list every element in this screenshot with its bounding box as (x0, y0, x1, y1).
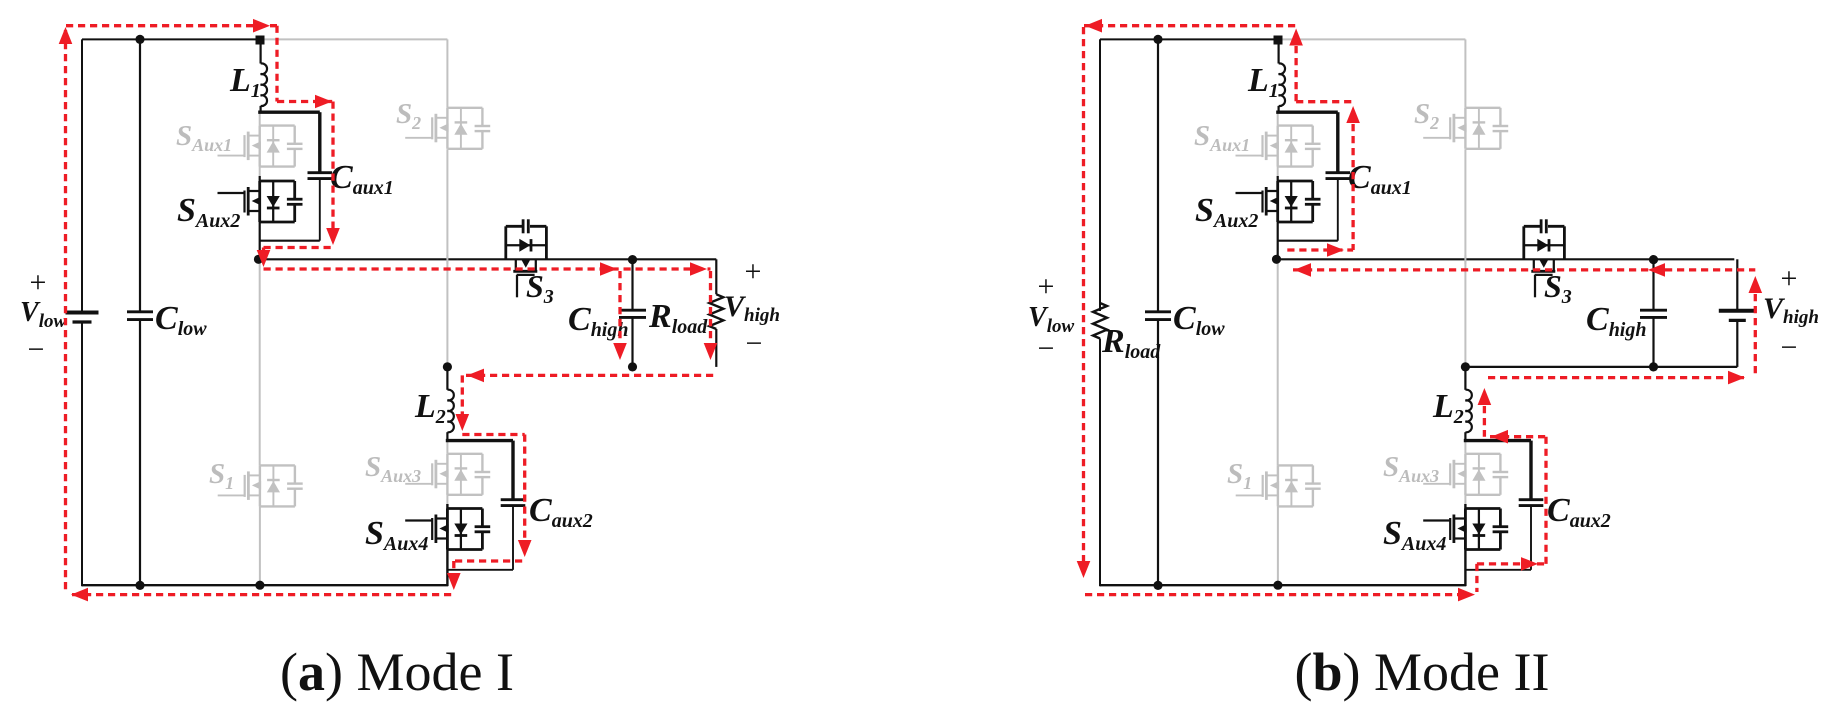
wire top rail (82, 38, 261, 40)
wire left branch lower (81, 323, 83, 586)
svg-text:+: + (30, 266, 47, 299)
transistor S_Aux1 (inactive) (218, 126, 303, 167)
wire S2 source to L2 node (446, 149, 448, 366)
svg-text:−: − (1038, 332, 1055, 365)
wire gray crossing overlay (446, 255, 448, 264)
label S3 (1544, 268, 1572, 308)
current path left rail (1082, 27, 1085, 570)
label C_high (568, 301, 629, 341)
node C_high bottom (1649, 362, 1658, 371)
wire output rail (259, 258, 717, 260)
wire S1 source to bottom rail (1277, 506, 1279, 585)
wire node to S1 drain (259, 259, 261, 465)
wire S2 source to L2 node (1464, 149, 1466, 366)
label S_Aux3 (1383, 451, 1439, 486)
label L1 (229, 62, 261, 102)
current arrow right mid (600, 262, 617, 276)
wire S_Aux4 axis (1464, 504, 1466, 586)
current arrow left top (1085, 19, 1102, 33)
current arrow left node (1294, 263, 1311, 277)
svg-text:−: − (1781, 331, 1798, 364)
transistor S2 (inactive) (405, 108, 490, 149)
capacitor C_high (619, 310, 646, 317)
label V_high (1763, 292, 1819, 328)
wire top gray (node to S2 drain) (261, 38, 447, 40)
wire L2 top lead (446, 369, 448, 390)
wire L2 top lead (1464, 369, 1466, 390)
node top C_low junction (135, 35, 144, 44)
wire S_Aux1 source lead (1277, 167, 1279, 182)
current path aux2 to bottom (452, 561, 455, 583)
inductor L1 (261, 63, 267, 106)
current path R_load down (709, 271, 712, 351)
wire C_low upper (1157, 39, 1159, 311)
transistor S3 (1524, 219, 1565, 297)
label S2 (1414, 98, 1439, 133)
wire left branch lower (1099, 339, 1101, 587)
circuit (b) Mode II (1028, 19, 1819, 602)
wire S2 drain lead (1464, 39, 1466, 107)
current arrow up left (59, 27, 73, 44)
current path down beside L1 (275, 26, 278, 102)
caption (a) Mode I (280, 642, 514, 702)
node bottom C_low junction (1153, 581, 1162, 590)
label V_low (20, 297, 66, 332)
wire S_Aux4 axis (446, 504, 448, 586)
transistor S_Aux4 (1423, 509, 1508, 550)
caption (b) Mode II (1295, 642, 1550, 702)
svg-text:+: + (1038, 270, 1055, 303)
label C_aux1 (1348, 159, 1412, 199)
current arrow down C_high (613, 343, 627, 360)
current arrow up aux1 (1346, 106, 1360, 123)
current path up beside L2 (1483, 394, 1486, 437)
wire L1 top lead (1277, 44, 1279, 64)
current arrow up L2 (1478, 388, 1492, 405)
wire aux2 bottom return (448, 569, 513, 571)
svg-text:−: − (746, 327, 763, 360)
current path output rail (1293, 268, 1755, 271)
current arrow right end (690, 262, 707, 276)
node top C_low junction (1153, 35, 1162, 44)
current path to C_aux2 top (462, 433, 524, 436)
wire top gray (node to S2 drain) (1279, 38, 1465, 40)
wire C_aux1 upper (1336, 112, 1339, 172)
inductor L2 (447, 390, 453, 433)
node C_high top (628, 255, 637, 264)
current path aux2 return (455, 559, 525, 562)
wire S_Aux3 drain lead (446, 442, 448, 454)
wire S_Aux1 source lead (259, 167, 261, 182)
current path aux1 return (264, 246, 334, 249)
node output junction (1272, 255, 1281, 264)
wire aux2 bottom return (1466, 569, 1531, 571)
svg-text:−: − (28, 333, 45, 366)
node L2 top junction (1461, 362, 1470, 371)
wire S2 drain lead (446, 39, 448, 107)
current arrow right top (253, 19, 270, 33)
capacitor C_aux1 (1326, 173, 1351, 179)
node bottom S1 junction (255, 581, 264, 590)
wire C_low lower (139, 320, 141, 586)
current path bottom right rail (1488, 376, 1744, 379)
label plus left (1038, 270, 1055, 303)
wire S_Aux3 source lead (446, 493, 448, 509)
current path top rail (66, 24, 277, 27)
wire aux1 top thick (258, 110, 320, 113)
label R_load (648, 298, 708, 338)
svg-text:+: + (745, 255, 762, 288)
label S_Aux3 (365, 451, 421, 486)
current path V_high up (1754, 282, 1757, 378)
current arrow down aux2 end (447, 573, 461, 590)
node L2 top junction (443, 362, 452, 371)
current path to C_aux1 top (277, 100, 333, 103)
current arrow down node (257, 250, 271, 267)
transistor S_Aux4 (405, 509, 490, 550)
wire S_Aux1 drain lead (259, 112, 261, 126)
label L1 (1247, 62, 1279, 102)
label S_Aux4 (1383, 515, 1446, 555)
current path aux2 top link (1490, 435, 1546, 438)
transistor S_Aux2 (1236, 181, 1321, 222)
wire C_aux1 lower (319, 179, 321, 241)
label S_Aux1 (176, 120, 232, 155)
wire bottom right rail (1465, 366, 1737, 368)
wire C_aux1 lower (1337, 179, 1339, 241)
label S1 (209, 458, 234, 493)
label C_aux1 (330, 159, 394, 199)
current path node to aux1 (1287, 248, 1353, 251)
current arrow left bottom (71, 588, 88, 602)
node bottom C_low junction (135, 581, 144, 590)
wire C_high lower (631, 317, 633, 367)
svg-text:(a) Mode I: (a) Mode I (280, 642, 514, 702)
transistor S_Aux3 (inactive) (405, 454, 490, 495)
current path C_aux1 down (331, 102, 334, 244)
current path aux2 lower link (1477, 562, 1546, 565)
svg-text:+: + (1781, 262, 1798, 295)
wire C_aux2 lower (1530, 506, 1532, 570)
current arrow right aux2 (1521, 557, 1538, 571)
wire L1 bottom lead (260, 106, 262, 113)
current arrow down left (1077, 561, 1091, 578)
wire S1 source to bottom rail (259, 506, 261, 585)
wire bottom rail (1100, 584, 1466, 586)
wire S_Aux2 axis (259, 176, 261, 259)
label plus left (30, 266, 47, 299)
label S_Aux2 (177, 192, 240, 232)
current path C_aux2 up (1544, 437, 1547, 564)
node L1 top terminal (1274, 36, 1283, 45)
wire C_high lower (1652, 317, 1654, 367)
wire C_aux1 upper (318, 112, 321, 172)
circuit (a) Mode I (20, 19, 780, 602)
current path C_aux2 down (523, 435, 526, 550)
label S_Aux2 (1195, 192, 1258, 232)
label L2 (414, 388, 446, 428)
capacitor C_high (1640, 310, 1667, 317)
wire L1 top lead (260, 44, 262, 64)
current path C_high down (618, 271, 621, 351)
current arrow up L1 (1289, 29, 1303, 46)
label C_aux2 (1547, 492, 1611, 532)
current path aux1 top link (1296, 100, 1353, 103)
label V_high (724, 290, 780, 326)
label L2 (1432, 388, 1464, 428)
current path into node (262, 248, 265, 263)
wire right branch lower (1736, 321, 1738, 367)
wire aux2 top thick (446, 439, 513, 442)
wire C_aux2 upper (511, 441, 514, 499)
label R_load (1101, 323, 1161, 363)
capacitor C_low (1145, 312, 1171, 320)
wire right branch lower (715, 329, 717, 367)
wire L2 bottom lead (446, 432, 448, 441)
current arrow right bottom (1458, 588, 1475, 602)
node output junction (254, 255, 263, 264)
current path up beside L1 (1294, 34, 1297, 102)
wire C_aux2 lower (512, 506, 514, 570)
current path left rail (64, 30, 67, 593)
label C_aux2 (529, 492, 593, 532)
label C_low (155, 300, 207, 340)
wire C_aux2 upper (1529, 441, 1532, 499)
current path top rail (1084, 24, 1296, 27)
node bottom S1 junction (1273, 581, 1282, 590)
label plus right (1781, 262, 1798, 295)
wire left branch upper (1099, 39, 1101, 311)
node L1 top terminal (256, 36, 265, 45)
current arrow left bottom right (467, 369, 484, 383)
wire bottom rail (82, 584, 448, 586)
wire aux1 bottom return (260, 240, 320, 242)
resistor R_load (1093, 303, 1107, 339)
wire C_high upper (631, 259, 633, 309)
capacitor C_aux2 (1519, 500, 1544, 506)
label plus right (745, 255, 762, 288)
voltage source V_high battery (1719, 311, 1756, 321)
inductor L1 (1279, 63, 1285, 106)
wire L2 bottom lead (1464, 432, 1466, 441)
current path bottom right (466, 374, 714, 377)
label S3 (526, 268, 554, 308)
current path bottom rail (1085, 593, 1468, 596)
transistor S_Aux2 (218, 181, 303, 222)
current arrow down R_load (704, 343, 718, 360)
wire top rail (1100, 38, 1279, 40)
transistor S2 (inactive) (1423, 108, 1508, 149)
wire C_low upper (139, 39, 141, 311)
label minus right (1781, 331, 1798, 364)
label S_Aux1 (1194, 120, 1250, 155)
current arrow left mid (1648, 263, 1665, 277)
current path C_aux1 up (1351, 112, 1354, 250)
label S1 (1227, 458, 1252, 493)
transistor S1 (inactive) (1236, 465, 1321, 506)
current arrow right aux1 bottom (1327, 243, 1344, 257)
node C_high bottom (628, 362, 637, 371)
inductor L2 (1465, 390, 1471, 433)
transistor S_Aux1 (inactive) (1236, 126, 1321, 167)
capacitor C_aux2 (501, 500, 526, 506)
wire aux2 top thick (1464, 439, 1531, 442)
label S_Aux4 (365, 515, 428, 555)
transistor S_Aux3 (inactive) (1423, 454, 1508, 495)
label minus left (1038, 332, 1055, 365)
current arrow down aux2 (518, 540, 532, 557)
resistor R_load (709, 294, 723, 329)
label V_low (1028, 302, 1074, 337)
wire output rail (1277, 258, 1735, 260)
capacitor C_low (127, 312, 153, 320)
transistor S1 (inactive) (218, 465, 303, 506)
label C_high (1586, 301, 1647, 341)
current path down beside L2 (461, 375, 464, 424)
label C_low (1173, 300, 1225, 340)
current arrow up V_high (1749, 276, 1763, 293)
label S2 (396, 98, 421, 133)
svg-text:(b) Mode II: (b) Mode II (1295, 642, 1550, 702)
wire left branch upper2 (1099, 39, 1101, 303)
current arrow right bottom right (1728, 371, 1745, 385)
wire gray crossing overlay (1464, 255, 1466, 264)
label minus right (746, 327, 763, 360)
current path output rail (264, 267, 711, 270)
wire left branch upper (81, 39, 83, 311)
label minus left (28, 333, 45, 366)
current path bottom rail (72, 593, 455, 596)
transistor S3 (506, 219, 547, 297)
current arrow down L2 (456, 414, 470, 431)
wire S_Aux1 drain lead (1277, 112, 1279, 126)
wire S_Aux2 axis (1277, 176, 1279, 259)
voltage source V_low battery (66, 313, 99, 323)
capacitor C_aux1 (308, 173, 333, 179)
wire L1 bottom lead (1277, 106, 1279, 113)
wire S_Aux3 source lead (1464, 493, 1466, 509)
wire node to S1 drain (1277, 259, 1279, 465)
node C_high top (1649, 255, 1658, 264)
current arrow down aux1 (326, 228, 340, 245)
wire C_low lower (1157, 320, 1159, 586)
wire aux1 bottom return (1278, 240, 1338, 242)
current arrow left aux2 top (1491, 430, 1508, 444)
wire aux1 top thick (1276, 110, 1338, 113)
current arrow right aux1 (315, 95, 332, 109)
current path up aux2 right (1475, 564, 1478, 592)
wire C_high upper (1652, 259, 1654, 309)
wire right branch upper (1736, 259, 1738, 310)
wire S_Aux3 drain lead (1464, 442, 1466, 454)
wire right branch upper (715, 259, 717, 294)
